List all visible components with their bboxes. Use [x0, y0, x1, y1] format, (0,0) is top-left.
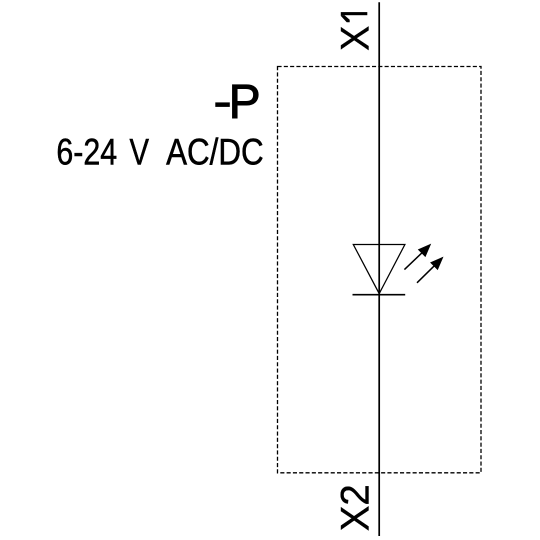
terminal label X1: digit 1 flag — [341, 15, 350, 22]
light emission arrow 1 shaft — [404, 252, 422, 269]
light emission arrow 1 head — [418, 244, 430, 256]
lamp -P: cathode bar — [353, 294, 406, 296]
device designator -P : hyphen — [215, 102, 230, 107]
light emission arrow 2 shaft — [417, 265, 435, 283]
lamp -P: LED triangle (anode) — [353, 245, 405, 294]
svg-text:V: V — [130, 132, 150, 173]
svg-text:AC/DC: AC/DC — [166, 132, 264, 173]
svg-text:6-24: 6-24 — [56, 132, 117, 173]
wire — [378, 2, 380, 536]
svg-text:P: P — [229, 76, 261, 129]
terminal label X1: digit 1 stem — [341, 12, 368, 15]
enclosure (dashed outline) — [278, 67, 482, 473]
svg-text:X: X — [334, 26, 378, 51]
svg-text:X2: X2 — [334, 484, 378, 531]
light emission arrow 2 head — [431, 257, 443, 269]
